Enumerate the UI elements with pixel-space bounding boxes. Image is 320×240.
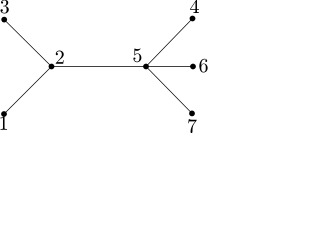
wire edge 5-7	[146, 67, 192, 114]
label 2	[56, 51, 64, 64]
node 6	[190, 64, 196, 70]
label 1	[0, 116, 7, 129]
node 7	[189, 111, 195, 117]
wire edge 1-2	[4, 67, 52, 115]
node 2	[49, 64, 55, 70]
node 5	[143, 64, 149, 70]
label 5	[133, 48, 141, 62]
wire edge 3-2	[4, 20, 51, 67]
wire edge 5-4	[146, 19, 193, 67]
label 3	[1, 0, 9, 13]
wire edge 2-5	[52, 66, 147, 68]
label 4	[190, 0, 199, 13]
label 7	[188, 119, 197, 133]
wire edge 5-6	[146, 66, 193, 68]
label 6	[199, 59, 207, 73]
node 3	[1, 17, 7, 23]
node 4	[190, 16, 196, 22]
node 1	[1, 111, 7, 117]
